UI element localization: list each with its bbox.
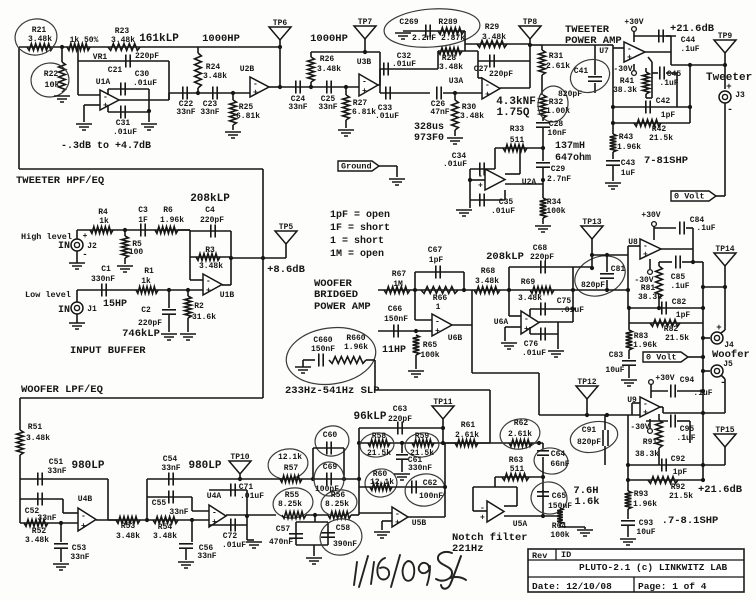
svg-text:R24: R24 <box>206 63 221 72</box>
capacitor C25 33nF <box>326 81 328 94</box>
svg-text:C30: C30 <box>135 70 150 79</box>
resistor R68 <box>474 287 500 294</box>
wire C30 left drop <box>107 89 109 95</box>
wire U6B minus drop <box>414 290 416 320</box>
svg-text:-: - <box>524 315 529 324</box>
svg-text:15HP: 15HP <box>103 299 127 310</box>
ground at flag <box>389 178 405 180</box>
wire R25 top <box>232 93 234 100</box>
svg-text:-: - <box>212 509 217 518</box>
node junction R62 right <box>537 441 541 445</box>
op-amp U9 <box>640 397 660 417</box>
resistor R33 <box>503 145 527 152</box>
svg-text:+: + <box>726 82 731 92</box>
wire C52 right drop <box>62 499 64 513</box>
svg-text:100pF: 100pF <box>315 485 339 494</box>
svg-text:6.81k: 6.81k <box>352 108 376 117</box>
svg-text:511: 511 <box>510 465 525 474</box>
svg-text:.01uF: .01uF <box>443 160 467 169</box>
ground under C43 <box>605 182 621 184</box>
svg-text:R28: R28 <box>442 54 457 63</box>
svg-text:R25: R25 <box>239 103 254 112</box>
op-amp U4B <box>78 508 96 531</box>
wire to J4 <box>724 287 726 330</box>
node junction C69 left <box>311 477 315 481</box>
svg-text:R3: R3 <box>205 246 215 255</box>
capacitor C67 1pF <box>435 266 437 279</box>
resistor R26 <box>308 57 315 82</box>
wire U5A output link <box>473 510 487 512</box>
wire R29 row <box>465 43 530 45</box>
test point TP11 <box>432 406 454 419</box>
svg-text:+: + <box>395 519 400 528</box>
node junction TP11 <box>441 426 445 430</box>
svg-text:150nF: 150nF <box>384 315 408 324</box>
svg-text:3.48k: 3.48k <box>199 262 223 271</box>
svg-text:C93: C93 <box>639 519 654 528</box>
wire long rail vertical <box>262 169 264 398</box>
node junction minus bus row <box>626 288 630 292</box>
wire R33 left drop <box>494 148 496 169</box>
svg-text:820pF: 820pF <box>581 281 605 290</box>
svg-text:C62: C62 <box>423 479 438 488</box>
wire C52 row <box>20 498 63 500</box>
node junction J4 bus <box>701 336 705 340</box>
wire C32 row <box>380 68 438 70</box>
svg-text:R30: R30 <box>462 103 477 112</box>
svg-text:220pF: 220pF <box>530 253 554 262</box>
wire U1A out to U2B <box>169 92 250 94</box>
wire 0V flag link <box>716 195 725 197</box>
node junction C2 top <box>167 288 171 292</box>
svg-text:328us: 328us <box>414 122 444 133</box>
node junction U9 out <box>701 411 705 415</box>
handwritten date 1/16/09 <box>354 555 430 587</box>
wire U8 minus bus vertical <box>627 246 629 308</box>
wire C76 right drop <box>557 322 559 334</box>
wire C2 stub <box>168 290 170 308</box>
wire output row TP5 <box>231 257 286 259</box>
svg-text:R21: R21 <box>32 26 47 35</box>
svg-text:R91: R91 <box>643 438 658 447</box>
svg-text:R1: R1 <box>144 267 154 276</box>
svg-text:C60: C60 <box>323 431 338 440</box>
title block divider date-page <box>633 577 635 592</box>
capacitor C57 470nF <box>289 533 303 535</box>
ground under R64 <box>577 529 593 531</box>
wire output up to feedback <box>168 61 170 100</box>
capacitor C64 66nF <box>537 450 549 452</box>
wire C83 to ground <box>628 366 630 378</box>
svg-text:POWER AMP: POWER AMP <box>314 301 371 313</box>
annotation ellipse around R59 <box>404 431 440 458</box>
svg-text:31.6k: 31.6k <box>192 313 216 322</box>
wire U6B output <box>452 324 472 326</box>
resistor R4 <box>90 227 113 234</box>
wire C85 right <box>682 261 693 263</box>
resistor R83 <box>626 330 633 350</box>
svg-text:C82: C82 <box>672 298 687 307</box>
wire U3B feedback top <box>311 51 380 53</box>
wire R56 to box <box>351 514 359 516</box>
svg-text:-: - <box>206 277 211 286</box>
wire C66 row <box>378 330 416 332</box>
capacitor C55 33nF <box>168 491 170 504</box>
wire C44 right drop <box>666 35 671 37</box>
op-amp U2A <box>485 169 505 190</box>
wire C57 box stem <box>314 515 316 522</box>
svg-text:TWEETER HPF/EQ: TWEETER HPF/EQ <box>16 175 104 187</box>
test point TP9 <box>714 40 736 53</box>
svg-text:1F = short: 1F = short <box>330 222 390 234</box>
svg-text:100k: 100k <box>550 531 569 540</box>
wire TP10 stem <box>239 474 241 479</box>
wire tweeter output rail <box>671 64 725 66</box>
wire long rail left drop <box>19 398 21 430</box>
wire output jog to main <box>168 93 170 100</box>
svg-text:R31: R31 <box>549 52 564 61</box>
annotation ellipse around R22 <box>30 61 71 98</box>
wire U7 input corner <box>612 45 614 48</box>
wire C72 right vertical <box>246 490 248 525</box>
svg-text:TP15: TP15 <box>715 426 734 435</box>
svg-text:3.48k: 3.48k <box>153 532 177 541</box>
wire C84 row <box>654 227 676 229</box>
svg-text:-: - <box>485 81 490 90</box>
svg-text:TP8: TP8 <box>523 18 538 27</box>
svg-text:3.48k: 3.48k <box>116 532 140 541</box>
capacitor C94 .1uF <box>670 385 672 398</box>
wire R83 link <box>628 308 630 330</box>
wire C32 left drop <box>379 69 381 93</box>
node junction C75 right <box>571 307 575 311</box>
wire C93 to ground <box>627 526 629 537</box>
svg-text:137mH: 137mH <box>555 141 585 152</box>
wire R28 left drop <box>437 51 439 69</box>
node junction C82 left <box>627 306 631 310</box>
capacitor C24 33nF <box>295 81 297 94</box>
capacitor C53 33nF <box>54 543 68 545</box>
resistor R30 <box>452 100 459 130</box>
svg-text:2.7nF: 2.7nF <box>547 175 571 184</box>
wire U9 supply stub <box>649 419 651 428</box>
wire C33 row <box>380 92 430 94</box>
ground under C76 <box>548 350 564 352</box>
wire inverting input drop <box>77 61 79 95</box>
wire TP12 stem <box>586 399 588 415</box>
test point TP8 <box>519 26 541 39</box>
wire R29 left drop <box>464 44 466 51</box>
svg-text:C85: C85 <box>671 273 686 282</box>
svg-text:220pF: 220pF <box>135 52 159 61</box>
wire R93 to C93 <box>627 509 629 519</box>
svg-text:3.48k: 3.48k <box>28 35 52 44</box>
wire R54 row <box>147 519 209 521</box>
svg-text:ID: ID <box>561 550 571 560</box>
wire R33 row <box>495 147 543 149</box>
wire R30 bottom <box>454 130 456 136</box>
resistor R27 <box>343 95 350 120</box>
wire R91 bottom <box>658 448 660 465</box>
capacitor C32 .01uF <box>383 63 385 76</box>
wire U2A minus to R33 <box>505 173 520 175</box>
wire R51 to rows <box>19 455 21 523</box>
resistor R82 <box>650 320 680 327</box>
svg-text:+: + <box>253 89 258 98</box>
wire U2B to U3B <box>280 86 359 88</box>
wire R65 bottom <box>415 355 417 369</box>
svg-text:.01uF: .01uF <box>375 112 399 121</box>
svg-text:647ohm: 647ohm <box>555 152 591 164</box>
wire R660 out <box>366 359 375 361</box>
annotation ellipse around C60 <box>313 423 352 458</box>
svg-text:R41: R41 <box>620 77 635 86</box>
svg-text:R54: R54 <box>158 523 173 532</box>
svg-text:C35: C35 <box>499 198 514 207</box>
node junction C85 <box>691 260 695 264</box>
wire C28 to C29 <box>542 128 544 161</box>
capacitor C27 220pF <box>489 55 491 68</box>
wire U3B feedback right <box>379 52 381 85</box>
svg-text:R32: R32 <box>549 98 564 107</box>
ground under C35 loop <box>456 209 472 211</box>
wire R2 bottom <box>187 318 189 332</box>
annotation ellipse around C65 <box>529 480 569 517</box>
svg-text:BRIDGED: BRIDGED <box>314 289 358 301</box>
svg-text:3.48k: 3.48k <box>203 72 227 81</box>
svg-text:1pF: 1pF <box>673 468 688 477</box>
wire C60 loop top <box>313 447 344 449</box>
svg-text:J2: J2 <box>87 242 97 251</box>
wire C31 loop bottom <box>108 111 149 113</box>
wire R43 to C43 <box>612 152 614 159</box>
svg-text:R82: R82 <box>664 325 679 334</box>
svg-text:820pF: 820pF <box>558 90 582 99</box>
svg-text:150nF: 150nF <box>311 345 335 354</box>
node junction R2 top <box>186 288 190 292</box>
svg-text:IN: IN <box>58 305 70 316</box>
wire C64 stub <box>542 443 544 449</box>
test point TP12 <box>576 386 598 399</box>
wire U6A minus feed <box>508 290 510 316</box>
capacitor C72 .01uF <box>230 519 232 532</box>
capacitor C26 47nF <box>436 87 438 100</box>
wire C72 row <box>209 524 247 526</box>
wire C269 right drop <box>464 31 466 44</box>
wire C57 box top <box>296 521 328 523</box>
ground under R22 <box>54 95 70 97</box>
op-amp U5B <box>392 507 408 527</box>
wire C34 left drop <box>469 169 471 200</box>
title block divider row2 <box>528 576 744 578</box>
ground under C56 <box>178 561 194 563</box>
wire C67 left drop <box>414 272 416 290</box>
svg-text:47nF: 47nF <box>430 108 449 117</box>
svg-text:220pF: 220pF <box>138 319 162 328</box>
svg-text:1k: 1k <box>99 217 109 226</box>
svg-text:100k: 100k <box>546 207 565 216</box>
svg-text:973F0: 973F0 <box>414 133 444 144</box>
wire U1A output <box>119 99 169 101</box>
wire C75 left drop <box>529 309 531 316</box>
wire U8 supply stub <box>649 259 651 269</box>
resistor R5 <box>122 236 129 258</box>
svg-text:+: + <box>480 513 485 522</box>
capacitor C30 .01uF <box>120 83 122 96</box>
capacitor C3 1F <box>140 224 142 237</box>
ground under U5B plus <box>374 531 390 533</box>
svg-text:C67: C67 <box>428 246 443 255</box>
svg-text:208kLP: 208kLP <box>486 251 524 263</box>
svg-text:C66: C66 <box>388 305 403 314</box>
svg-text:R59: R59 <box>415 432 430 441</box>
wire R5 top <box>124 230 126 236</box>
svg-text:.01uF: .01uF <box>113 128 137 137</box>
ground under U6A plus <box>501 342 517 344</box>
svg-text:C68: C68 <box>533 244 548 253</box>
capacitor C84 .1uF <box>679 222 681 235</box>
svg-text:33nF: 33nF <box>176 108 195 117</box>
wire U3A output up <box>529 44 531 88</box>
svg-text:C1: C1 <box>101 265 111 274</box>
node junction TP14 bus <box>701 285 705 289</box>
svg-text:1k 50%: 1k 50% <box>70 36 99 45</box>
svg-text:TP5: TP5 <box>279 223 294 232</box>
capacitor C82 1pF <box>661 302 663 315</box>
svg-text:U2A: U2A <box>522 178 537 187</box>
wire J2 gnd stub <box>76 251 78 263</box>
annotation ellipse around C660 R660 <box>283 322 380 390</box>
svg-text:C51: C51 <box>49 458 64 467</box>
op-amp U7 <box>624 42 645 62</box>
svg-text:220pF: 220pF <box>200 216 224 225</box>
resistor R23 <box>108 44 140 51</box>
wire R34 bottom <box>542 218 544 224</box>
annotation ellipse around C41 <box>566 54 615 98</box>
wire R3 left vertical <box>189 230 191 280</box>
svg-text:C27: C27 <box>474 65 489 74</box>
wire R68 row <box>464 289 509 291</box>
wire -30V stub <box>633 64 635 70</box>
ground under C61 <box>394 473 410 475</box>
node junction C31 right <box>147 109 151 113</box>
svg-text:R6: R6 <box>163 206 173 215</box>
node junction C81 bottom <box>605 288 609 292</box>
wire R52 row <box>20 522 78 524</box>
svg-text:820pF: 820pF <box>577 438 601 447</box>
svg-text:+21.6dB: +21.6dB <box>670 23 715 35</box>
wire C65 gap <box>542 490 544 492</box>
resistor R66 <box>421 287 458 294</box>
svg-text:+30V: +30V <box>655 374 674 383</box>
resistor R6 <box>155 227 178 234</box>
svg-text:1pF = open: 1pF = open <box>330 210 390 221</box>
test point TP10 <box>229 461 251 474</box>
svg-text:C95: C95 <box>680 425 695 434</box>
svg-text:+8.6dB: +8.6dB <box>267 264 306 276</box>
svg-text:.01uF: .01uF <box>222 541 246 550</box>
svg-text:J3: J3 <box>735 91 745 100</box>
annotation ellipse around R58 <box>359 431 395 458</box>
resistor R59 <box>412 440 434 447</box>
wire C95 row <box>646 420 668 422</box>
wire TP6 stem <box>279 40 281 47</box>
wire C81 stub down <box>606 280 608 290</box>
svg-text:-30V: -30V <box>630 423 649 432</box>
wire U9 minus feed <box>631 403 633 415</box>
wire R53 row <box>108 519 147 521</box>
power +30V for U9 <box>649 380 654 385</box>
svg-text:.1uF: .1uF <box>696 224 715 233</box>
resistor R61 <box>455 440 478 447</box>
svg-text:R62: R62 <box>514 419 529 428</box>
wire R26 bottom <box>310 82 312 87</box>
resistor R3 <box>196 254 220 261</box>
wire R64 gnd stub <box>584 527 586 529</box>
node junction R24 bottom <box>196 91 200 95</box>
node junction TP13 bottom <box>590 266 594 270</box>
svg-text:221Hz: 221Hz <box>452 543 484 555</box>
wire U5A plus link <box>504 515 543 517</box>
wire U8 output <box>661 248 693 250</box>
wire U3A minus stub <box>478 77 482 79</box>
wire C57 box left <box>295 522 297 545</box>
svg-text:WOOFER LPF/EQ: WOOFER LPF/EQ <box>21 384 103 396</box>
wire R26 top <box>310 52 312 57</box>
wire C63 row <box>359 427 443 429</box>
wire R63 left drop <box>494 477 496 487</box>
ground under R5 <box>117 265 133 267</box>
svg-text:+: + <box>83 232 88 241</box>
svg-text:100: 100 <box>129 248 144 257</box>
wire R58 row <box>359 442 490 444</box>
svg-text:R26: R26 <box>320 55 335 64</box>
svg-text:+: + <box>524 325 529 334</box>
ground under R27 <box>338 129 354 131</box>
resistor R67 <box>384 287 410 294</box>
connector J5 <box>711 365 723 377</box>
svg-text:-: - <box>362 78 367 87</box>
svg-text:1000HP: 1000HP <box>202 33 240 45</box>
svg-text:.7-8.1SHP: .7-8.1SHP <box>662 515 719 527</box>
test point TP13 <box>581 226 603 239</box>
capacitor C60 <box>326 442 328 455</box>
resistor R660 <box>329 357 366 364</box>
svg-text:R66: R66 <box>433 294 448 303</box>
wire C21 feedback top <box>78 60 169 62</box>
svg-text:161kLP: 161kLP <box>139 33 179 45</box>
wire C4 row <box>190 230 231 232</box>
svg-text:1.75Q: 1.75Q <box>496 107 529 119</box>
capacitor C58 390nF <box>321 532 335 534</box>
node junction C65 bottom <box>541 514 545 518</box>
wire R24 top <box>197 47 199 53</box>
node junction R66 left <box>413 288 417 292</box>
resistor R43 <box>610 134 617 152</box>
node junction TP9 <box>723 63 727 67</box>
wire C35 right up to plus <box>504 190 506 200</box>
svg-text:C64: C64 <box>551 450 566 459</box>
svg-text:.01uF: .01uF <box>240 492 264 501</box>
ground at U1A plus <box>76 123 92 125</box>
node junction R57 right <box>357 477 361 481</box>
svg-text:R53: R53 <box>121 522 136 531</box>
resistor R64 <box>557 508 563 524</box>
ground under R65 <box>408 370 424 372</box>
wire U5A box left <box>472 487 474 511</box>
capacitor C29 2.7nF <box>536 162 550 164</box>
wire C51 right drop <box>107 479 109 520</box>
